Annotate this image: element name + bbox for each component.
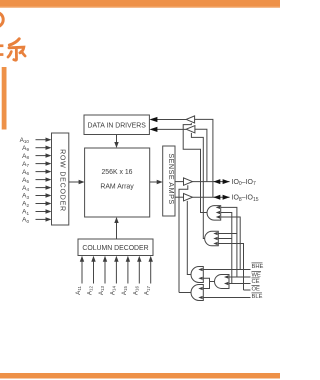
wire sense amps to OB2 (175, 196, 184, 198)
input buffer T2 (186, 126, 195, 133)
wire OB2 enable from gate A output (187, 201, 191, 275)
wire U2 pin3 to OE vertical (218, 244, 243, 291)
data in drivers box (84, 115, 149, 135)
wire U2 pin1 (218, 233, 237, 235)
RAM array box (85, 148, 150, 217)
gate A (2-input, output left) (191, 267, 203, 283)
wire WE row (229, 276, 251, 278)
column address labels A11..A17 (rotated) (75, 286, 151, 296)
address labels (20, 137, 30, 224)
wire T1 input from IO8-15 (195, 119, 213, 197)
wire T2 output to data in drivers (154, 128, 186, 130)
gate B (2-input, output left) (191, 285, 203, 301)
column decoder box (78, 239, 153, 256)
wire BLE row (203, 297, 250, 299)
arrow RAM to sense amps (150, 181, 159, 183)
gate U2 (3-input, output left) (205, 231, 219, 246)
IO8-IO15 line with bidirectional arrows (193, 196, 230, 198)
svg-text:BHE: BHE (252, 264, 264, 270)
wire gate B output to left vertical (179, 292, 192, 294)
svg-text:256K x 16: 256K x 16 (101, 169, 132, 176)
wire U2 pin2 (218, 238, 232, 240)
arrow data in drivers down to RAM (116, 135, 118, 145)
wire T1 output to data in drivers (154, 119, 186, 121)
svg-text:COLUMN DECODER: COLUMN DECODER (82, 245, 148, 252)
svg-text:ROW DECODER: ROW DECODER (59, 149, 66, 212)
wire T1 enable from gate U1 (183, 123, 207, 213)
address input lines A10..A0 (36, 140, 48, 220)
wire CE row (229, 283, 251, 285)
svg-text:BLE: BLE (252, 294, 263, 300)
watermark vertical bar (2, 67, 7, 130)
svg-text:OE: OE (252, 287, 261, 293)
input buffer T1 (to data in drivers) (186, 116, 194, 123)
wire OE row (244, 289, 251, 291)
gate C (2-input, output left) (215, 275, 229, 289)
output buffer OB2 (IO8-15) (184, 194, 193, 201)
wire BHE row (203, 269, 250, 271)
column decoder input arrows A11..A17 (82, 260, 151, 284)
bottom orange banner (0, 373, 280, 379)
sense amps box (163, 146, 175, 216)
wire U1 pin1 to WE vertical (221, 207, 237, 277)
svg-text:DATA IN DRIVERS: DATA IN DRIVERS (88, 122, 147, 129)
watermark stroke fragments of cut-off character (0, 44, 3, 47)
wire gate C output to gates A,B (210, 281, 215, 283)
wire U1 pin2 to CE vertical (221, 213, 232, 284)
control labels with overlines (252, 263, 264, 300)
IO0-IO7 line with bidirectional arrows (193, 181, 230, 183)
watermark ring fragment (left edge) (0, 12, 3, 27)
wire sense amps to OB1 (175, 181, 184, 183)
svg-text:SENSE AMPS: SENSE AMPS (167, 153, 176, 204)
wire OB1 enable from long left vertical (179, 185, 188, 292)
svg-text:CE: CE (252, 279, 260, 285)
top orange banner (0, 0, 280, 8)
wire T2 input from IO0-7 (195, 129, 207, 181)
wire U1 pin3 to BHE vertical (221, 217, 241, 270)
output buffer OB1 (IO0-7) (184, 178, 193, 185)
arrow column decoder up to RAM (116, 221, 118, 239)
arrow row decoder to RAM (69, 181, 80, 183)
box labels (59, 122, 177, 252)
svg-text:RAM Array: RAM Array (100, 183, 134, 190)
wire T2 enable from gate U2 (191, 133, 204, 239)
row decoder box (52, 133, 69, 225)
gate U1 (3-input, output left) (207, 206, 221, 221)
watermark character 尔 (drawn as paths) (8, 39, 25, 60)
